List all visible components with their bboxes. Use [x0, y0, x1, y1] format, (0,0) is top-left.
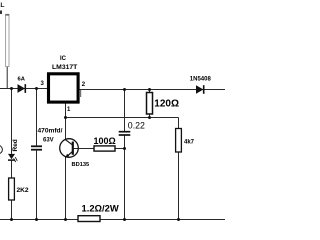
wire capacitor C1 bottom lead: [36, 151, 38, 220]
wire ADJ horizontal line: [66, 117, 179, 119]
resistor R4 4k7: [176, 129, 182, 153]
svg-text:100Ω: 100Ω: [94, 136, 116, 146]
wire bottom ground rail right: [100, 219, 225, 221]
wire main left rail: [0, 88, 47, 90]
node junction left wire cap branch: [35, 87, 38, 90]
node ground junction C1: [35, 218, 38, 221]
resistor R3 120R: [147, 93, 153, 115]
wire main right rail (LM317 output): [80, 89, 226, 91]
node ADJ junction: [64, 116, 67, 119]
diode D3 1N5408: [196, 85, 203, 94]
svg-text:63V: 63V: [43, 137, 54, 143]
wire 0.22 cap top lead: [124, 90, 126, 132]
svg-text:1N5408: 1N5408: [190, 77, 212, 83]
resistor R1 2K2: [9, 178, 15, 200]
LED arrows: [14, 158, 16, 162]
wire pin2 stub artifact: [80, 90, 82, 97]
wire bottom ground rail left: [0, 219, 78, 221]
wire 120R bottom lead: [149, 114, 151, 118]
svg-text:1.2Ω/2W: 1.2Ω/2W: [82, 203, 119, 214]
wire LED branch top: [11, 89, 13, 154]
node junction 100R / 0.22 cap: [123, 147, 126, 150]
meter arc fragment left edge: [0, 146, 2, 154]
resistor R5 1.2R/2W: [78, 216, 100, 222]
node ground junction 2K2: [10, 218, 13, 221]
wire IC pin1 down to transistor collector: [65, 104, 67, 141]
node junction left wire LED branch: [10, 87, 13, 90]
resistor R2 100R: [94, 146, 115, 151]
node ground junction 0.22 branch: [123, 218, 126, 221]
svg-text:BD135: BD135: [72, 162, 90, 168]
node junction output cap branch: [123, 88, 126, 91]
capacitor C2 0.22: [119, 131, 131, 133]
wire 0.22 cap bottom lead down to ground: [124, 135, 126, 219]
svg-text:4k7: 4k7: [184, 139, 195, 145]
svg-text:120Ω: 120Ω: [154, 99, 179, 110]
svg-text:IC: IC: [60, 56, 67, 62]
wire LED to resistor 2K2: [11, 160, 13, 178]
wire ADJ corner down to 4k7: [178, 118, 180, 129]
wire 100R right lead: [115, 148, 125, 150]
node ground junction 4k7: [177, 218, 180, 221]
label fragment left edge: [0, 11, 2, 15]
wire resistor 2K2 to ground: [11, 200, 13, 220]
svg-text:470mfd/: 470mfd/: [38, 127, 63, 134]
wire capacitor C1 top lead: [36, 89, 38, 146]
svg-text:Red: Red: [12, 139, 19, 151]
wire transistor emitter down to ground: [65, 157, 67, 220]
wire 120R top lead: [149, 90, 151, 93]
svg-text:2K2: 2K2: [17, 187, 29, 194]
svg-text:6A: 6A: [18, 77, 26, 83]
node ground junction emitter: [64, 218, 67, 221]
transistor Q1 BD135: [60, 139, 79, 158]
node junction ADJ / 120R: [148, 116, 151, 119]
wire transistor base to 100R: [74, 148, 94, 150]
node junction output 120R branch: [148, 88, 151, 91]
capacitor C1 470mfd/63V: [31, 145, 42, 147]
svg-text:0.22: 0.22: [128, 121, 145, 131]
wire 4k7 bottom lead to ground: [178, 152, 180, 220]
svg-text:EL: EL: [0, 2, 4, 9]
wire fuse lead: [6, 67, 8, 89]
diode D1 6A: [18, 84, 26, 93]
fuse F1: [6, 15, 9, 67]
svg-text:LM317T: LM317T: [52, 64, 78, 71]
op-amp IC U1 LM317T box: [49, 74, 79, 102]
LED D2 Red: [8, 154, 15, 159]
